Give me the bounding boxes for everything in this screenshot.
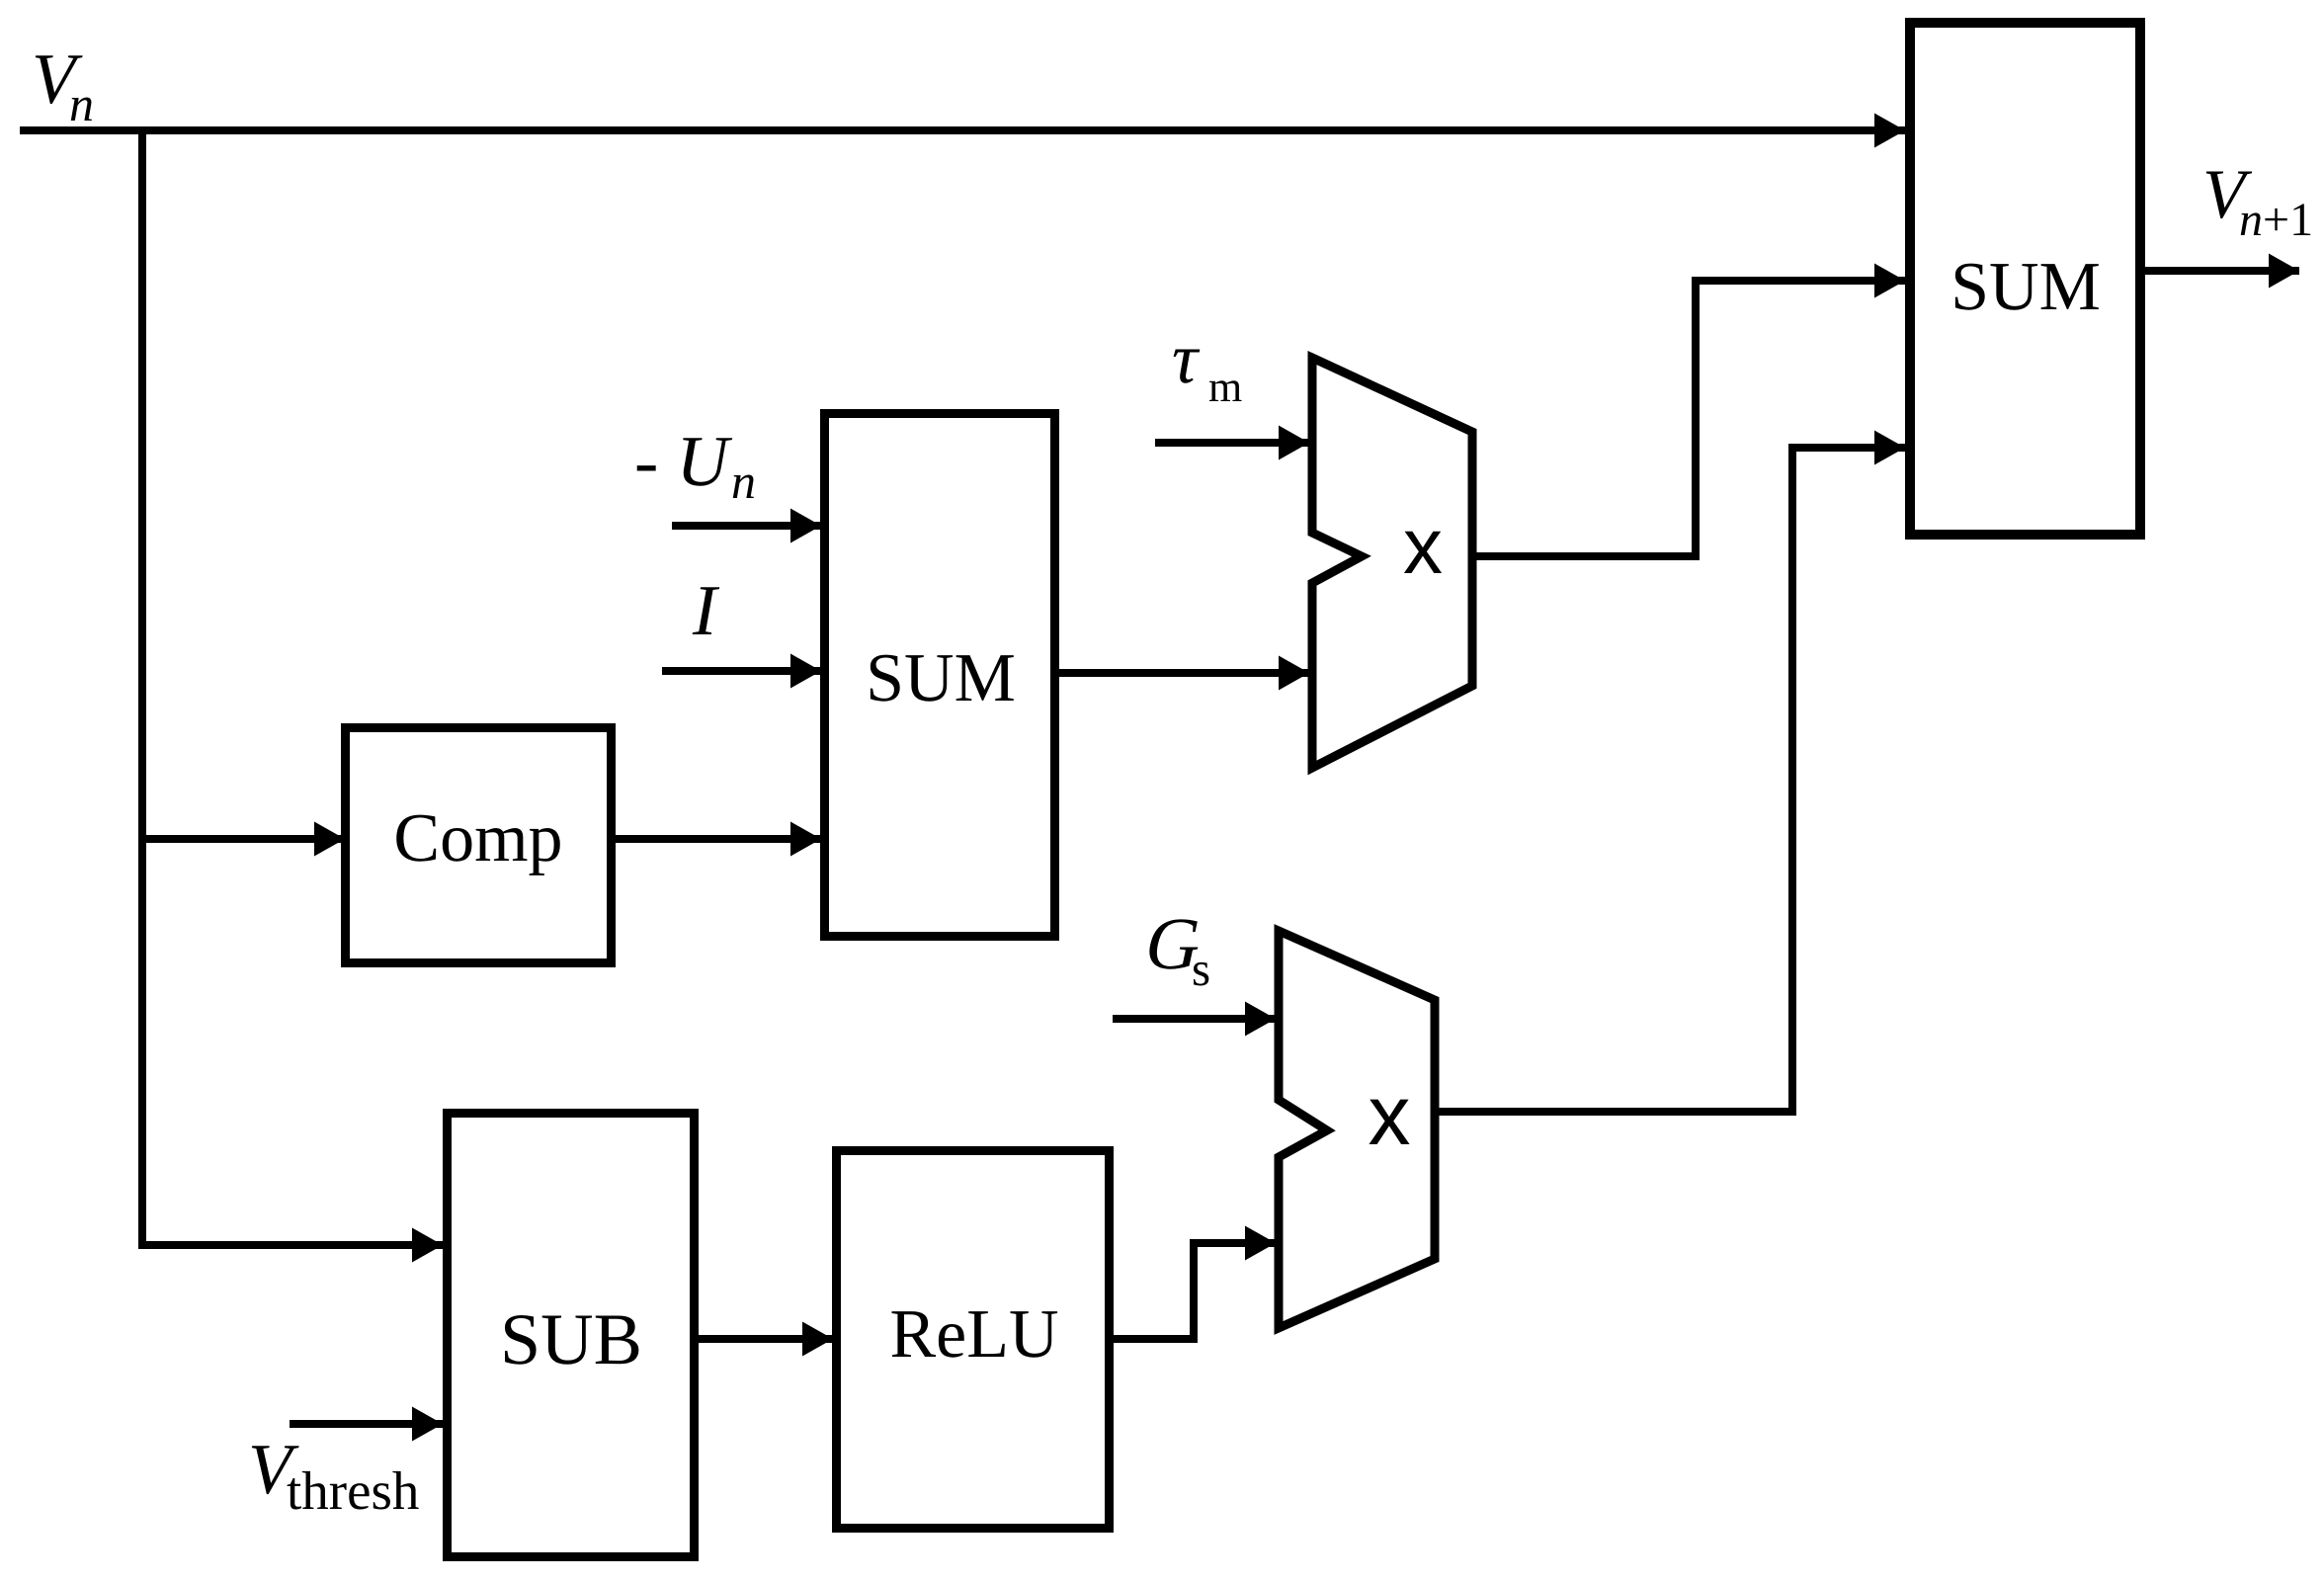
svg-text:τ: τ (1172, 318, 1201, 398)
svg-text:thresh: thresh (287, 1460, 419, 1521)
svg-text:I: I (692, 570, 720, 650)
svg-text:x: x (1369, 1068, 1411, 1163)
svg-text:ReLU: ReLU (889, 1296, 1058, 1373)
svg-text:- U: - U (634, 421, 733, 501)
svg-text:SUB: SUB (500, 1299, 642, 1380)
svg-text:SUM: SUM (866, 640, 1016, 716)
svg-text:s: s (1192, 942, 1210, 996)
svg-text:n+1: n+1 (2239, 194, 2313, 246)
svg-text:m: m (1208, 363, 1242, 411)
svg-text:x: x (1403, 502, 1443, 590)
svg-text:n: n (731, 454, 756, 509)
svg-text:SUM: SUM (1950, 249, 2101, 325)
svg-text:n: n (69, 76, 94, 131)
svg-text:Comp: Comp (393, 800, 562, 876)
